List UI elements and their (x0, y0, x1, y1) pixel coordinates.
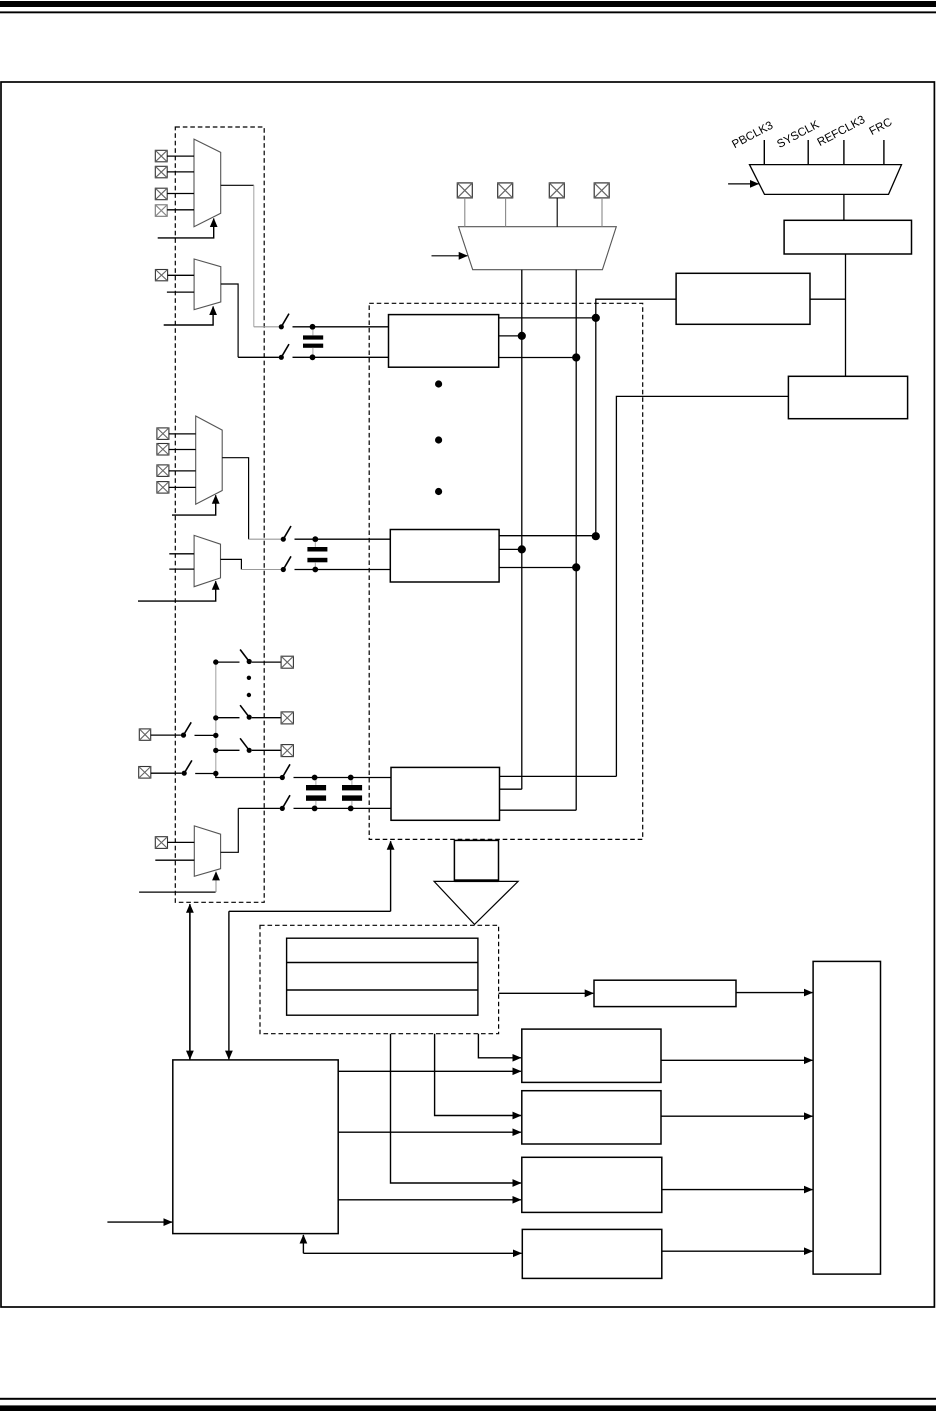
node (213, 771, 218, 776)
wire control to CMP2 (338, 1131, 521, 1133)
wire stub (601, 198, 603, 227)
block ADC0 (389, 315, 499, 368)
arrow into control block (189, 904, 191, 1059)
block TR1 clock divider (784, 220, 911, 254)
node (213, 659, 218, 664)
wire clock stub REFCLK3 (843, 140, 845, 165)
mux M3 output wire (222, 458, 248, 540)
junction node (592, 532, 600, 540)
mux M6 (ADC clock source select) (750, 165, 902, 195)
wire S&H line ADC7 minus (238, 807, 280, 809)
pin box AN left B (139, 767, 151, 779)
pin box AN1-alt4 (157, 482, 169, 494)
block digital filter (594, 980, 736, 1006)
block control logic (173, 1060, 338, 1234)
funnel thick base (454, 879, 498, 882)
ellipsis dots scan rows (247, 676, 251, 698)
block CMP4 (522, 1229, 662, 1278)
wire row3 (216, 749, 240, 751)
junction node (572, 563, 580, 571)
block CMP3 (522, 1157, 662, 1212)
wire (167, 193, 194, 195)
wire row1 (216, 661, 240, 663)
wire CMP4 out (662, 1250, 813, 1252)
pin box AN7 (155, 837, 167, 849)
header rule thick (0, 1, 936, 7)
wire input 2 (155, 859, 194, 861)
wire feedback riser (229, 910, 391, 912)
ellipsis dots ADC bank (435, 380, 442, 495)
wire (gray riser to sample line) (253, 185, 255, 326)
junction (312, 536, 318, 542)
mux M1 select wire with arrow (158, 219, 214, 238)
wire M7 out left rail (521, 270, 523, 790)
wire ADC7 right mid (500, 788, 522, 790)
mux M5 select riser with arrow (215, 872, 217, 892)
pin box AN0 (155, 270, 167, 281)
wire ADC1 out bottom (499, 567, 576, 569)
mux M5 output wire (221, 808, 239, 852)
junction node (518, 545, 526, 553)
funnel arrow head (434, 881, 518, 924)
wire ADC1 out top (499, 535, 596, 537)
mux M7 (shared S&H input select) (459, 227, 617, 270)
wire CMP2 out (661, 1115, 812, 1117)
mux M6 select arrow (728, 183, 758, 185)
mux M3 select wire with arrow (172, 495, 216, 515)
mux M2 (AN0 / alternate) (194, 259, 221, 310)
header rule thin (0, 11, 936, 13)
wire clock stub PBCLK3 (763, 140, 765, 165)
wire control to CMP1 (338, 1070, 521, 1072)
wire (169, 433, 196, 435)
svg-text:SYSCLK: SYSCLK (775, 118, 822, 151)
wire ADC0 out top (499, 317, 596, 319)
switch SWr2 (240, 705, 252, 720)
wire (294, 807, 392, 809)
mux M4 select wire with arrow (138, 581, 216, 601)
pin box AN0-alt1 (155, 150, 167, 162)
capacitor C0 (303, 329, 323, 354)
wire CMP1 out (661, 1059, 812, 1061)
junction node (518, 332, 526, 340)
wire ADC0 out mid (499, 335, 522, 337)
wire (169, 486, 196, 488)
wire (195, 734, 216, 736)
wire M7 out right rail (575, 270, 577, 811)
wire stub (556, 198, 558, 227)
wire (169, 449, 196, 451)
wire S&H line ADC1 minus (241, 569, 281, 571)
wire clock stub SYSCLK (807, 140, 809, 165)
node (213, 733, 218, 738)
wire CMP3 out (662, 1189, 813, 1191)
capacitor C1 (307, 542, 327, 567)
wire input 1 (169, 553, 194, 555)
svg-text:FRC: FRC (867, 115, 894, 138)
mux M7 select arrow (432, 255, 468, 257)
mux M4 output wire (221, 559, 242, 569)
dashed box bottom exit arrow left (189, 904, 191, 1059)
wire stub (505, 198, 507, 227)
junction (312, 775, 318, 781)
wire ADC7 right bottom (500, 809, 577, 811)
mux M5 (AN7 / alternate) (194, 826, 220, 876)
pin box AN0-alt4 (155, 205, 167, 217)
mux M1 (AN0 alternate inputs) (194, 139, 221, 227)
pin box AN0 (549, 183, 564, 198)
switch SWr3 (240, 738, 252, 753)
pin box ANx row2 (281, 712, 293, 724)
switch SW1a (281, 526, 291, 542)
wire (167, 155, 194, 157)
pin box AN left A (139, 729, 150, 740)
switch SW0a (279, 314, 289, 330)
wire (168, 274, 195, 276)
wire clock stub FRC (883, 140, 885, 165)
pin box AVSS (594, 183, 609, 198)
mux M4 (AN1 / alternate) (194, 535, 220, 586)
wire (167, 209, 194, 211)
pin box AN1-alt3 (157, 465, 169, 477)
wire stub (464, 198, 466, 227)
divider (287, 989, 478, 991)
divider (287, 962, 478, 964)
arrow up into ADC bank box (390, 841, 392, 911)
wire S&H line ADC1 plus (249, 538, 281, 540)
mux M3 (AN1 alternate inputs) (196, 416, 223, 504)
junction node (592, 314, 600, 322)
footer rule thick (0, 1405, 936, 1411)
switch SWr1 (240, 650, 252, 665)
wire (295, 569, 391, 571)
capacitor C7a (306, 780, 326, 806)
block result registers (287, 938, 478, 1015)
wire (195, 773, 216, 775)
wire M6 output (843, 194, 845, 220)
pin box ANx row3 (281, 745, 293, 757)
wire SFR out to filter (499, 992, 594, 994)
funnel arrow shaft (454, 840, 498, 880)
svg-text:PBCLK3: PBCLK3 (730, 119, 775, 151)
wire control to CMP3 (338, 1199, 521, 1201)
switch SW7a (280, 764, 290, 780)
wire (169, 470, 196, 472)
svg-text:REFCLK3: REFCLK3 (815, 113, 867, 149)
block CMP2 (522, 1091, 661, 1144)
mux M5 select wire (139, 891, 216, 893)
wire input 2 (167, 291, 194, 293)
node (213, 748, 218, 753)
mux M2 select wire with arrow (164, 307, 213, 326)
wire input 2 (169, 568, 194, 570)
switch SW7b (280, 795, 290, 811)
switch SWlb (182, 760, 192, 775)
wire turnaround to CMP4 (303, 1252, 521, 1254)
wire (293, 356, 389, 358)
wire TR2 right (810, 298, 846, 300)
wire ADC7 right top (500, 775, 617, 777)
junction node (572, 353, 580, 361)
mux M2 output wire (221, 284, 238, 357)
wire ADC1 out mid (499, 548, 522, 550)
wire SFR to CMP2 (435, 1034, 521, 1116)
wire TR1 to TR3 (845, 254, 847, 376)
wire (295, 538, 391, 540)
block CMP1 (522, 1029, 661, 1082)
arrow up into control block bottom (302, 1235, 304, 1253)
wire filter to interrupt (736, 992, 812, 994)
wire class-3 scan bus (215, 662, 217, 773)
wire row2 (216, 717, 240, 719)
wire (151, 734, 181, 736)
switch SWla (181, 722, 191, 737)
wire S&H line ADC0 minus (238, 356, 279, 358)
wire S&H line ADC0 plus (254, 326, 279, 328)
junction (310, 324, 316, 330)
mux M1 output wire (221, 184, 254, 186)
arrow into control block left (107, 1221, 172, 1223)
wire (252, 749, 281, 751)
wire bus to SW7a (216, 774, 280, 778)
block ADC7 (391, 767, 500, 820)
wire (151, 772, 182, 774)
pin box ANx row1 (281, 656, 293, 668)
pin box AN1-alt2 (157, 444, 169, 456)
wire (167, 171, 194, 173)
wire S&H line ADC7 plus (294, 777, 392, 779)
wire SFR to CMP1 (478, 1034, 521, 1058)
junction (312, 567, 318, 573)
wire ADC0 out bottom (499, 357, 577, 359)
dashed box analog input muxes (175, 127, 264, 902)
capacitor C7b (342, 780, 362, 806)
block TR3 clock divider 2 (788, 376, 907, 418)
block TR2 control clock (676, 273, 810, 324)
wire (168, 841, 195, 843)
arrow into control block 2 (228, 911, 230, 1059)
junction (310, 354, 316, 360)
wire (252, 661, 281, 663)
junction (348, 775, 354, 781)
wire (252, 717, 281, 719)
switch SW0b (279, 344, 289, 360)
wire SFR to CMP3 (391, 1034, 521, 1183)
pin box AN0-alt3 (155, 188, 167, 200)
wire TR3 to ADC7 (616, 396, 788, 776)
footer rule thin (0, 1398, 936, 1400)
wire (293, 326, 389, 328)
dashed box SFR group (260, 925, 499, 1033)
pin box AN0-alt2 (155, 166, 167, 178)
switch SW1b (281, 556, 291, 572)
junction (348, 806, 354, 812)
block ADC1 (390, 530, 499, 583)
block interrupt/event tall (813, 961, 880, 1274)
pin box AN1-alt1 (157, 428, 169, 440)
wire TR2 rail (596, 299, 676, 536)
dashed box ADC bank (369, 303, 643, 839)
junction (312, 806, 318, 812)
pin box AN1 (498, 183, 513, 198)
node (213, 715, 218, 720)
pin box VREFL (457, 183, 472, 198)
